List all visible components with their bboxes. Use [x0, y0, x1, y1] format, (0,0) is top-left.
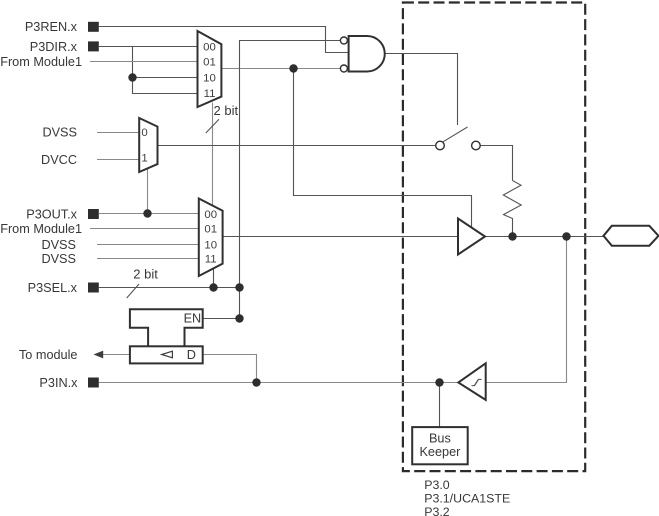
svg-text:Bus: Bus — [429, 431, 451, 445]
svg-text:2 bit: 2 bit — [133, 266, 158, 281]
svg-text:To module: To module — [19, 348, 78, 362]
svg-text:DVSS: DVSS — [41, 252, 76, 266]
svg-text:00: 00 — [204, 209, 217, 221]
svg-text:2 bit: 2 bit — [214, 103, 239, 118]
svg-text:P3.2: P3.2 — [424, 505, 450, 516]
svg-text:11: 11 — [204, 88, 216, 100]
svg-text:10: 10 — [203, 73, 216, 85]
svg-text:01: 01 — [204, 223, 217, 235]
svg-text:01: 01 — [203, 57, 216, 69]
svg-text:DVCC: DVCC — [41, 153, 77, 167]
svg-text:P3.1/UCA1STE: P3.1/UCA1STE — [424, 492, 510, 506]
svg-text:P3OUT.x: P3OUT.x — [26, 207, 77, 221]
svg-text:1: 1 — [141, 153, 147, 165]
svg-text:10: 10 — [204, 239, 217, 251]
svg-text:11: 11 — [205, 254, 217, 266]
svg-text:From Module1: From Module1 — [0, 222, 82, 236]
svg-text:0: 0 — [141, 127, 147, 139]
svg-text:P3SEL.x: P3SEL.x — [28, 281, 78, 295]
svg-text:D: D — [187, 348, 196, 362]
svg-text:P3IN.x: P3IN.x — [39, 376, 78, 390]
svg-text:From Module1: From Module1 — [0, 55, 82, 69]
svg-text:DVSS: DVSS — [42, 125, 77, 139]
svg-text:Keeper: Keeper — [419, 445, 461, 459]
svg-text:P3.0: P3.0 — [424, 478, 450, 492]
svg-text:P3DIR.x: P3DIR.x — [30, 40, 78, 54]
svg-text:EN: EN — [184, 312, 202, 326]
svg-text:P3REN.x: P3REN.x — [25, 20, 78, 34]
svg-text:00: 00 — [203, 41, 216, 53]
svg-text:DVSS: DVSS — [41, 238, 76, 252]
